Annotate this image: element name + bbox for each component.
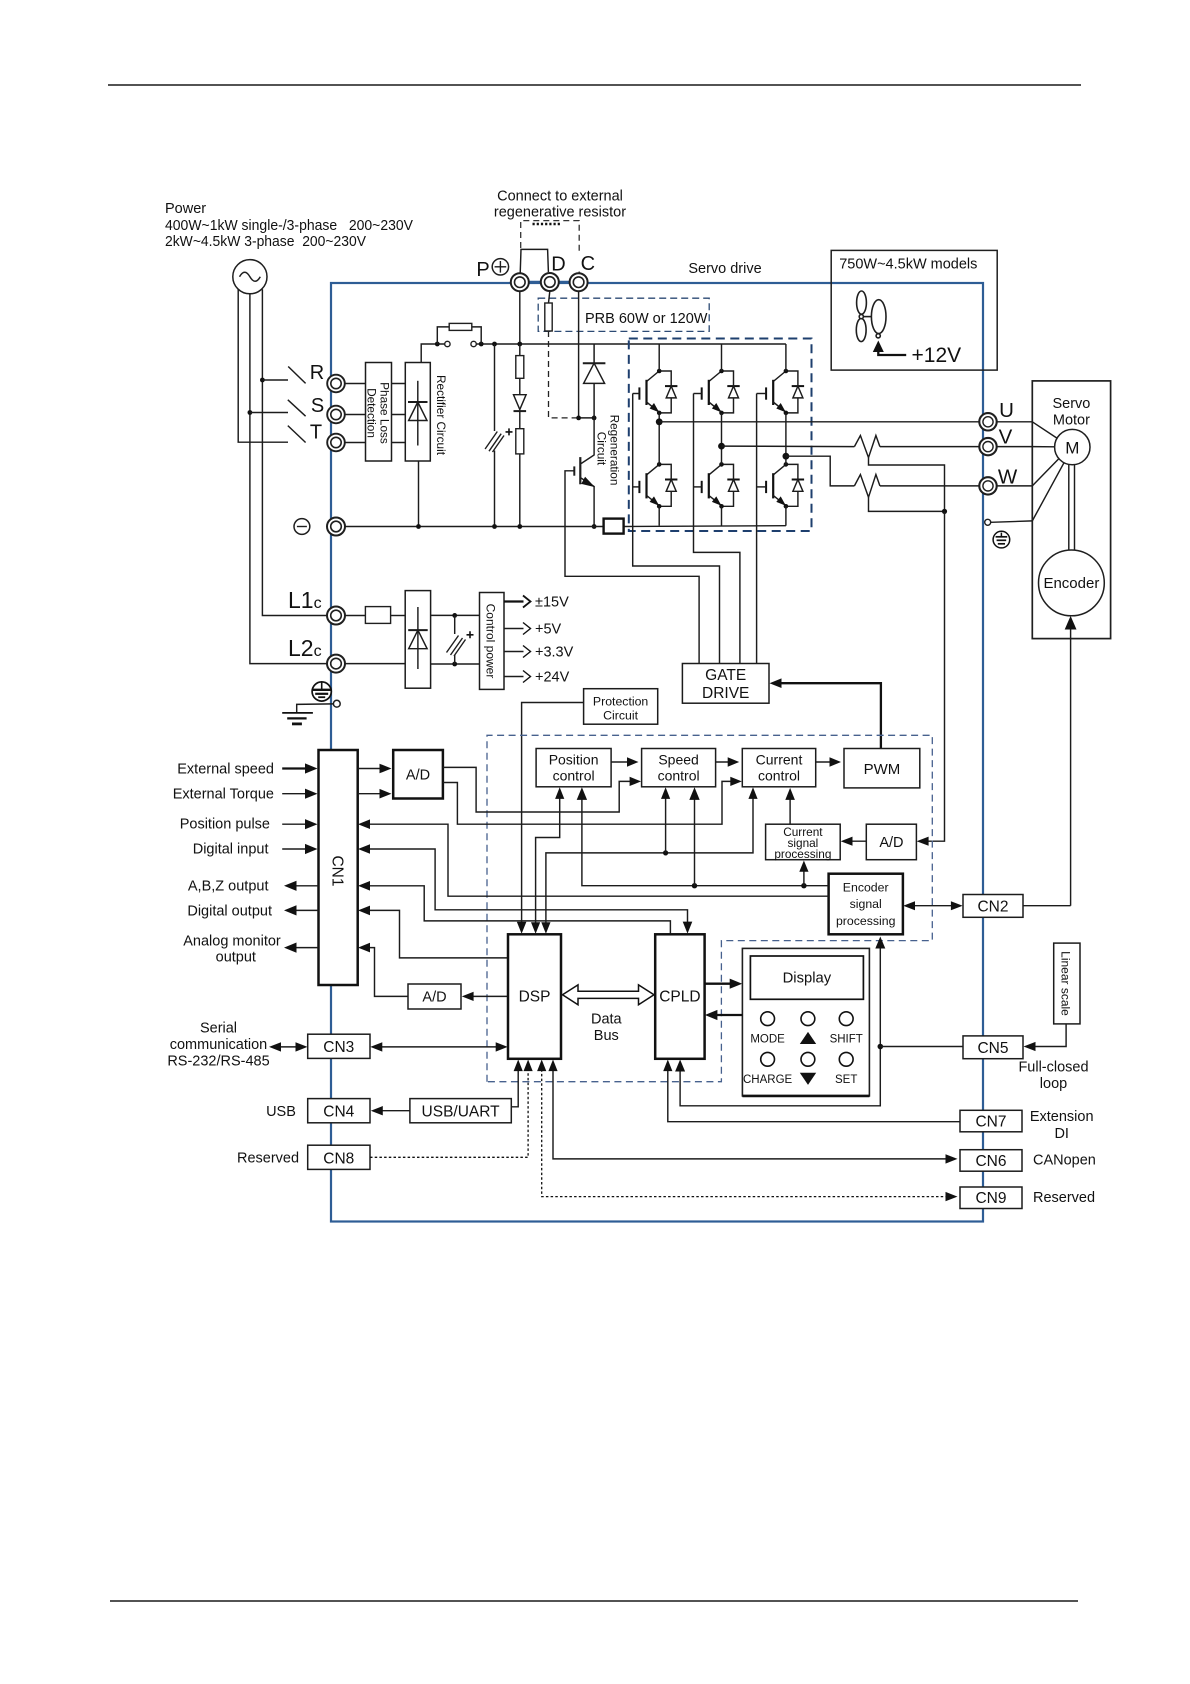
- svg-text:+5V: +5V: [535, 622, 562, 638]
- svg-text:Control power: Control power: [484, 604, 498, 679]
- svg-text:R: R: [310, 362, 324, 384]
- terminal V: [979, 438, 996, 455]
- svg-text:GATE: GATE: [705, 667, 746, 684]
- inductance kink W phase: [854, 475, 880, 498]
- wire W phase output: [786, 456, 855, 486]
- wire motor leads to M: [1032, 422, 1064, 521]
- svg-text:C: C: [581, 253, 595, 275]
- node bus at P branch: [517, 342, 522, 347]
- node Q3 top collector: [784, 369, 789, 374]
- svg-text:Reserved: Reserved: [237, 1150, 299, 1166]
- arrow CN1 to AD torque channel: [358, 793, 386, 795]
- wire CPLD to CN7: [668, 1065, 962, 1122]
- dotted wire CN8 to DSP: [370, 1065, 528, 1158]
- diode D2 top: [722, 371, 740, 413]
- svg-text:A,B,Z output: A,B,Z output: [188, 879, 269, 895]
- node Q2 top emitter: [719, 411, 724, 416]
- wire S stub: [250, 412, 288, 414]
- solid wire DSP to CN6: [553, 1065, 952, 1159]
- motor shaft: [1069, 465, 1075, 551]
- symbol up arrow key: [800, 1032, 816, 1044]
- block Current control: [742, 749, 815, 787]
- box CN1: [319, 750, 358, 985]
- node control cap bottom: [452, 662, 457, 667]
- box CN3: [308, 1034, 370, 1058]
- button MODE: [761, 1012, 775, 1026]
- svg-text:processing: processing: [836, 914, 896, 928]
- svg-text:400W~1kW single-/3-phase 200: 400W~1kW single-/3-phase 200~230V: [165, 218, 413, 234]
- svg-text:CN7: CN7: [975, 1114, 1006, 1131]
- wire T terminal to Phase Loss box: [345, 442, 366, 444]
- diode bleeder: [514, 395, 527, 411]
- svg-text:DSP: DSP: [519, 989, 551, 1006]
- wire AD torque channel to current control: [443, 781, 734, 824]
- switch blade T: [288, 426, 306, 443]
- diode D1 top: [659, 371, 677, 413]
- wire phase junction column 3: [785, 413, 787, 465]
- wire L2c terminal to control bridge: [345, 663, 405, 665]
- box CN8: [308, 1145, 370, 1169]
- symbol earth ground: [282, 713, 313, 724]
- wire Q3 bottom emitter to negative bus: [785, 506, 787, 525]
- svg-text:regenerative resistor: regenerative resistor: [494, 205, 626, 221]
- block Rectifier Circuit: [405, 363, 430, 462]
- wire control cap branch: [454, 615, 456, 664]
- IGBT Q2 bottom: [694, 464, 722, 505]
- arrow current to PWM: [816, 761, 836, 763]
- terminal L1c: [327, 607, 345, 625]
- svg-text:CN9: CN9: [975, 1190, 1006, 1207]
- wire protection circuit to DSP: [522, 703, 584, 930]
- svg-text:Position pulse: Position pulse: [180, 817, 270, 833]
- node bypass left: [479, 342, 484, 347]
- arrow position to speed: [611, 761, 633, 763]
- svg-text:CN1: CN1: [329, 855, 346, 886]
- terminal D: [541, 273, 559, 291]
- supply output 5V: [504, 628, 524, 630]
- IGBT Q3 bottom: [757, 464, 786, 505]
- arrow external torque into CN1: [282, 793, 311, 795]
- svg-text:USB: USB: [266, 1104, 296, 1120]
- wire S terminal to Phase Loss box: [345, 414, 366, 416]
- box CN5: [963, 1036, 1023, 1059]
- svg-text:Linear scale: Linear scale: [1059, 951, 1073, 1016]
- svg-text:Detection: Detection: [365, 388, 379, 438]
- arrow analog monitor from CN1: [290, 947, 319, 949]
- wire analog monitor from DA: [362, 948, 408, 997]
- svg-text:processing: processing: [774, 847, 831, 861]
- wire ground terminal to motor: [991, 521, 1033, 522]
- wire capacitor branch: [494, 344, 496, 527]
- svg-text:T: T: [310, 422, 322, 444]
- capacitor control supply: [447, 636, 466, 657]
- node sensor tap junction: [942, 509, 947, 514]
- wire junction to CN5: [880, 1046, 963, 1048]
- terminal U: [979, 413, 996, 430]
- svg-text:Reserved: Reserved: [1033, 1190, 1095, 1206]
- box CN7: [960, 1110, 1022, 1132]
- display window: [750, 956, 863, 999]
- wires control bridge to control power: [431, 615, 480, 664]
- block AD current: [866, 824, 916, 860]
- svg-text:External speed: External speed: [177, 762, 274, 778]
- node negative bus bleeder: [517, 524, 522, 529]
- svg-text:750W~4.5kW models: 750W~4.5kW models: [839, 257, 977, 273]
- wire W terminal to motor: [997, 485, 1033, 487]
- diode D2 bottom: [722, 464, 740, 506]
- wire AC center to S phase and down to L2c: [250, 294, 327, 664]
- wire V terminal to motor: [997, 446, 1033, 448]
- svg-text:Connect to external: Connect to external: [497, 189, 623, 205]
- wire V phase current sensor tap: [869, 458, 945, 512]
- block DSP: [508, 934, 561, 1059]
- node bus at capacitor branch: [492, 342, 497, 347]
- wire V phase output: [722, 445, 855, 448]
- dashed box control section: [487, 735, 932, 1081]
- box USB UART: [410, 1099, 511, 1123]
- wire AC left tangent to T phase: [238, 289, 288, 442]
- terminal L2c: [327, 655, 345, 673]
- node phase 3 junction: [783, 453, 790, 460]
- block Encoder signal processing: [829, 874, 903, 935]
- wire DSP-position control bidirectional: [536, 792, 560, 930]
- node regen emitter on bus: [592, 524, 597, 529]
- terminal R: [327, 375, 345, 393]
- arrow DSP command into speed control: [665, 792, 667, 853]
- svg-text:CANopen: CANopen: [1033, 1152, 1096, 1168]
- IGBT Q2 top: [694, 371, 722, 412]
- relay contact right: [471, 341, 476, 346]
- svg-text:Motor: Motor: [1053, 413, 1090, 429]
- IGBT Q1 top: [633, 371, 660, 412]
- node CN5 junction: [878, 1044, 884, 1050]
- wire fuse to control bridge: [391, 615, 406, 617]
- switch blade R: [288, 367, 305, 384]
- symbol protective earth at L2c: [312, 682, 331, 701]
- svg-text:control: control: [758, 768, 800, 784]
- svg-text:communication: communication: [170, 1037, 268, 1053]
- node Q1 top emitter: [657, 411, 662, 416]
- svg-text:Protection: Protection: [593, 695, 649, 709]
- svg-text:CN3: CN3: [323, 1039, 354, 1056]
- svg-text:Circuit: Circuit: [595, 432, 609, 466]
- button DOWN: [801, 1052, 815, 1066]
- symbol down arrow key: [800, 1073, 816, 1085]
- node Q3 top emitter: [784, 411, 789, 416]
- svg-text:CPLD: CPLD: [659, 989, 700, 1006]
- button UP: [801, 1012, 815, 1026]
- dashed box IGBT inverter bridge: [629, 339, 812, 532]
- arrow current signal processing to current control: [789, 793, 791, 825]
- arrow keypad to CPLD: [711, 1014, 742, 1016]
- block Protection Circuit: [584, 689, 658, 725]
- DC bus positive: [437, 343, 786, 345]
- svg-text:2kW~4.5kW 3-phase 200~230V: 2kW~4.5kW 3-phase 200~230V: [165, 234, 366, 250]
- diode inside control bridge: [408, 607, 428, 669]
- wire phase junction column 2: [721, 413, 723, 465]
- node C junction: [576, 416, 581, 421]
- svg-text:Phase Loss: Phase Loss: [378, 382, 392, 444]
- wire sensor feedback to current A/D: [921, 511, 945, 841]
- box CN9: [960, 1187, 1022, 1209]
- wire U terminal to motor: [997, 421, 1033, 423]
- wire DC bus drop into Q1: [658, 344, 660, 371]
- wire L1c terminal to fuse: [345, 615, 365, 617]
- regeneration IGBT: [565, 418, 699, 664]
- box CN4: [308, 1099, 370, 1123]
- fan symbol: [856, 291, 886, 342]
- page top rule: [108, 84, 1081, 86]
- svg-text:Digital input: Digital input: [193, 842, 269, 858]
- wire C terminal down to regeneration node: [579, 292, 595, 418]
- arrow feedback to speed control: [694, 792, 696, 885]
- symbol protective earth: [993, 531, 1010, 548]
- svg-text:control: control: [553, 768, 595, 784]
- arrow +12V to fan: [873, 341, 884, 353]
- jumper P to D: [520, 249, 548, 273]
- arrow serial to CN3 bidirectional: [274, 1046, 304, 1048]
- svg-text:Position: Position: [549, 752, 599, 768]
- resistor bleeder upper: [516, 356, 524, 379]
- keypad panel outer: [742, 948, 869, 1096]
- svg-text:signal: signal: [850, 897, 882, 911]
- wire AC right tangent to R phase and down to L1c: [262, 289, 327, 615]
- node Q3 bottom collector: [784, 462, 789, 467]
- svg-text:MODE: MODE: [750, 1034, 785, 1046]
- arrow ABZ output from CN1: [290, 885, 319, 887]
- svg-text:A/D: A/D: [406, 768, 430, 784]
- arrow UART to CN4: [376, 1110, 410, 1112]
- wire phase junction column 1: [658, 413, 660, 465]
- wire linear scale to CN5: [1029, 1024, 1067, 1047]
- motor M circle: [1055, 429, 1090, 464]
- supply output 3.3V: [504, 651, 524, 653]
- svg-text:Digital output: Digital output: [187, 904, 272, 920]
- node feedback to speed control: [692, 883, 697, 888]
- node bus left: [435, 342, 440, 347]
- wire DC bus drop into Q3: [785, 344, 787, 371]
- page bottom rule: [110, 1600, 1078, 1602]
- svg-text:control: control: [658, 768, 700, 784]
- svg-text:DRIVE: DRIVE: [702, 685, 749, 702]
- relay contact left: [445, 341, 450, 346]
- svg-text:M: M: [1065, 439, 1079, 458]
- wire Q1 bottom emitter to negative bus: [658, 506, 660, 525]
- svg-text:S: S: [311, 395, 324, 417]
- svg-text:Servo drive: Servo drive: [688, 261, 761, 277]
- svg-text:Regeneration: Regeneration: [608, 415, 622, 486]
- wire bleeder branch: [519, 344, 521, 527]
- resistor bleeder lower: [516, 429, 524, 454]
- svg-text:P: P: [476, 259, 489, 281]
- node Q1 bottom emitter: [657, 504, 662, 509]
- node R feed junction: [260, 378, 265, 383]
- wire U phase output: [659, 421, 979, 423]
- svg-text:Extension: Extension: [1030, 1109, 1094, 1125]
- svg-text:Rectifier Circuit: Rectifier Circuit: [434, 375, 448, 456]
- resistor PRB: [545, 303, 552, 331]
- wire rectifier bottom to negative bus: [418, 461, 420, 527]
- arrow DSP to AD monitor: [467, 995, 509, 997]
- svg-text:CN2: CN2: [977, 899, 1008, 916]
- IGBT Q1 bottom: [633, 464, 659, 505]
- node Q2 bottom emitter: [719, 504, 724, 509]
- svg-text:CHARGE: CHARGE: [743, 1074, 793, 1086]
- block GATE DRIVE: [682, 664, 769, 704]
- svg-text:V: V: [999, 426, 1013, 449]
- svg-text:Current: Current: [756, 752, 803, 768]
- wire encoder feedback trunk: [582, 792, 829, 885]
- node phase 2 junction: [718, 443, 725, 450]
- IGBT Q3 top: [757, 371, 786, 412]
- node S feed junction: [248, 410, 253, 415]
- svg-text:Servo: Servo: [1052, 396, 1090, 412]
- block Control power: [480, 593, 505, 690]
- svg-text:CN5: CN5: [977, 1040, 1008, 1057]
- svg-text:+24V: +24V: [535, 670, 570, 686]
- svg-text:CN8: CN8: [323, 1151, 354, 1168]
- wire DSP command to speed and current: [546, 792, 753, 930]
- svg-text:+3.3V: +3.3V: [535, 645, 574, 661]
- terminal motor ground: [985, 519, 991, 525]
- wire P terminal to DC bus: [519, 292, 521, 345]
- svg-text:PRB 60W or 120W: PRB 60W or 120W: [585, 311, 708, 327]
- arrow digital input into CN1: [282, 848, 311, 850]
- svg-text:Analog monitor: Analog monitor: [183, 934, 281, 950]
- wire UART to DSP: [511, 1065, 518, 1107]
- svg-text:USB/UART: USB/UART: [422, 1104, 501, 1121]
- box CN2: [963, 895, 1023, 918]
- encoder circle: [1039, 550, 1105, 616]
- block AD input: [393, 750, 443, 799]
- svg-text:Speed: Speed: [658, 752, 698, 768]
- wire gate rail column 1: [633, 394, 720, 664]
- arrow keypad riser into ESP: [879, 941, 881, 1047]
- wire bypass resistor loop: [437, 327, 481, 344]
- block control rectifier bridge: [405, 591, 430, 689]
- terminal S: [327, 406, 345, 424]
- node phase 1 junction: [656, 418, 663, 425]
- node Q2 bottom collector: [719, 462, 724, 467]
- node Q1 bottom collector: [657, 462, 662, 467]
- svg-text:Encoder: Encoder: [1043, 575, 1099, 592]
- arrow digital output from CN1: [290, 909, 319, 911]
- wire encoder cable from CN2: [1070, 627, 1072, 906]
- wire AD speed channel to speed control: [443, 767, 500, 812]
- supply output 24V: [504, 676, 524, 678]
- wires Phase Loss to Rectifier: [392, 384, 406, 443]
- dashed box PRB: [538, 298, 709, 331]
- svg-text:+12V: +12V: [912, 344, 962, 367]
- diode D3 bottom: [786, 464, 804, 506]
- diode D1 bottom: [659, 464, 677, 506]
- terminal P: [511, 273, 529, 291]
- arrow CN3 to DSP bidirectional: [375, 1046, 504, 1048]
- dashed box external regenerative resistor: [521, 221, 580, 253]
- box 750W~4.5kW models: [831, 250, 997, 370]
- wire to earth symbol: [297, 704, 334, 713]
- dotted wire DSP to CN9: [542, 1065, 949, 1197]
- svg-text:Circuit: Circuit: [603, 709, 638, 723]
- wire digital output from DSP: [362, 910, 508, 958]
- dashed wire D to regeneration node: [549, 331, 578, 418]
- svg-text:RS-232/RS-485: RS-232/RS-485: [167, 1054, 269, 1070]
- svg-text:CN4: CN4: [323, 1104, 354, 1121]
- node control cap top: [452, 613, 457, 618]
- svg-text:Power: Power: [165, 201, 206, 217]
- terminal minus: [327, 518, 345, 536]
- inductance kink V phase: [854, 436, 880, 458]
- wire gate rail column 3: [756, 394, 758, 664]
- AC source: [233, 260, 267, 294]
- svg-text:A/D: A/D: [422, 990, 446, 1006]
- svg-text:Encoder: Encoder: [843, 881, 889, 895]
- arrow CN1 to AD speed channel: [358, 768, 386, 770]
- symbol circled plus: [492, 259, 508, 275]
- node Q2 top collector: [719, 369, 724, 374]
- block Current signal processing: [766, 824, 841, 860]
- svg-text:CN6: CN6: [975, 1153, 1006, 1170]
- node Q1 top collector: [657, 369, 662, 374]
- svg-text:A/D: A/D: [879, 835, 903, 851]
- button CHARGE: [761, 1052, 775, 1066]
- box Linear scale: [1054, 943, 1080, 1024]
- block Speed control: [642, 749, 716, 787]
- wire W phase current sensor tap: [869, 497, 945, 511]
- arrow AD to current signal processing: [846, 840, 867, 842]
- svg-text:SET: SET: [835, 1074, 857, 1086]
- wire PWM to gate drive: [774, 683, 881, 748]
- svg-text:SHIFT: SHIFT: [830, 1034, 863, 1046]
- node feedback to current signal processing: [801, 883, 806, 888]
- wire position pulse to encoder signal processing: [362, 824, 829, 896]
- resistor current sense on bus: [604, 519, 624, 534]
- wire blue link P-D-C: [519, 281, 580, 284]
- resistor soft-charge bypass: [449, 323, 472, 330]
- svg-text:loop: loop: [1040, 1076, 1067, 1092]
- block CPLD: [655, 934, 704, 1059]
- svg-text:±15V: ±15V: [535, 595, 569, 611]
- svg-text:DI: DI: [1054, 1126, 1069, 1142]
- diode D3 top: [786, 371, 804, 413]
- DC bus negative: [345, 525, 786, 528]
- diode inside rectifier: [408, 381, 428, 446]
- terminal T: [327, 434, 345, 452]
- regeneration diode: [583, 344, 606, 418]
- wire R terminal to Phase Loss box: [345, 383, 366, 385]
- svg-text:U: U: [999, 399, 1014, 422]
- dotted external resistor symbol: [533, 223, 561, 226]
- svg-text:Full-closed: Full-closed: [1018, 1060, 1088, 1076]
- button SHIFT: [839, 1012, 853, 1026]
- arrow feedback to current signal processing: [803, 865, 805, 886]
- terminal C: [570, 273, 588, 291]
- node Q3 bottom emitter: [784, 504, 789, 509]
- block Position control: [536, 749, 611, 787]
- servo drive enclosure (blue box): [331, 283, 983, 1222]
- arrow speed to current: [716, 761, 735, 763]
- svg-text:D: D: [551, 254, 565, 276]
- arrow external speed into CN1: [282, 767, 311, 769]
- block AD monitor: [408, 984, 461, 1009]
- arrow position pulse into CN1: [282, 823, 311, 825]
- svg-text:External Torque: External Torque: [173, 787, 274, 803]
- svg-text:W: W: [998, 466, 1018, 489]
- fuse control supply: [365, 607, 390, 624]
- wire CPLD to keypad riser: [680, 1047, 880, 1106]
- node negative bus capacitor: [492, 524, 497, 529]
- capacitor DC link: [485, 432, 504, 453]
